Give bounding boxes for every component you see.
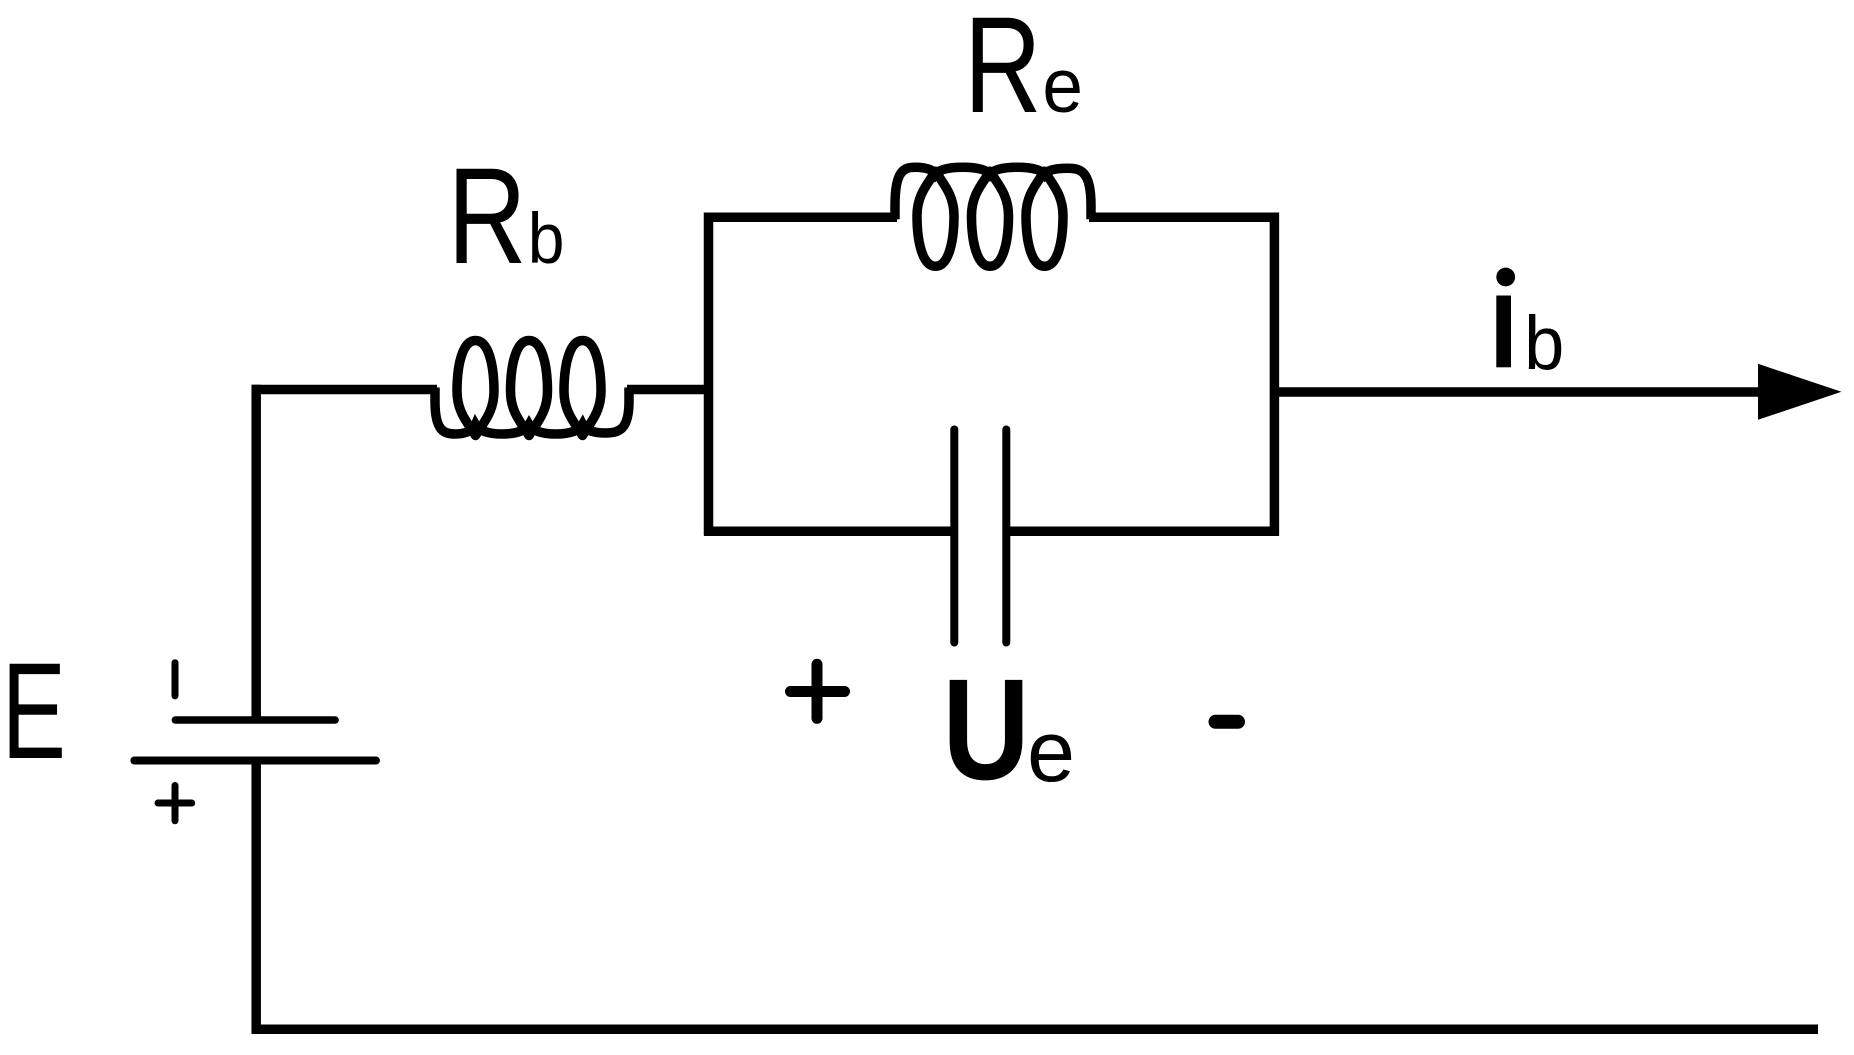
svg-text:e: e [1027,704,1075,800]
wire: box right edge [1270,213,1280,536]
battery minus mark (vertical tick) [172,663,179,696]
capacitor: right plate [1002,430,1010,643]
svg-text:R: R [448,140,527,292]
label Ue [942,650,1075,810]
current arrow ib: shaft [1279,387,1765,397]
svg-text:b: b [528,199,565,279]
wire: box top edge, left segment [704,212,897,222]
battery plus mark [158,786,192,821]
label - (Ue polarity) [1216,715,1239,729]
label + (Ue polarity) [791,664,845,718]
wire: box bottom edge, right segment [1008,527,1279,537]
svg-text:E: E [2,635,66,788]
svg-text:R: R [964,0,1042,142]
wire: from battery bottom plate down to bottom return wire [251,761,261,1035]
label Re [964,0,1083,142]
wire: left riser from top node down to battery top plate [251,385,261,722]
wire: bottom return line [252,1025,1819,1035]
wire: box bottom edge, left segment [704,527,952,537]
capacitor: left plate [950,430,958,643]
label ib [1496,268,1564,386]
svg-text:b: b [1524,300,1564,385]
label Rb [448,140,565,292]
current arrow ib: head [1758,364,1842,420]
resistor Re (coil on box top edge) [895,167,1091,266]
resistor Rb (coil) [435,341,629,436]
wire: from Rb to box left edge [627,385,712,395]
label E (battery) [2,635,66,788]
svg-text:e: e [1042,44,1083,129]
battery: bottom (long) plate [134,757,376,765]
wire: box top edge, right segment [1089,212,1279,222]
wire: box left edge (parallel RC block) [704,213,714,536]
wire: horizontal from left riser to resistor Rb [252,385,438,395]
svg-text:U: U [942,650,1029,810]
battery: top (short) plate [175,716,335,724]
